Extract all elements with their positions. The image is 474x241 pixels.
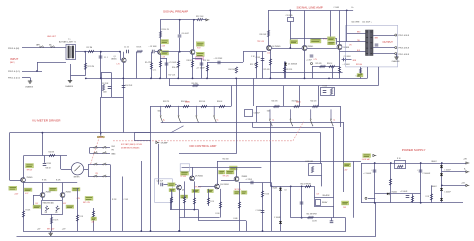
relay feed drop2: [314, 186, 316, 197]
svg-text:+C5 10UF: +C5 10UF: [169, 62, 177, 64]
sw mark b: [334, 120, 336, 122]
resistor R52: [170, 197, 172, 203]
svg-text:10 1W: 10 1W: [312, 221, 317, 223]
bl red r: [77, 198, 81, 200]
R45 label: [26, 210, 32, 212]
C6 label: [182, 33, 189, 35]
Q6 bias drop: [330, 10, 332, 36]
green label q9 t: [181, 172, 189, 176]
m22 label: [37, 228, 41, 230]
chassis label 2: [65, 85, 74, 88]
relay coil feed riser: [252, 122, 254, 127]
ps dot1: [374, 162, 376, 164]
pwr1 red: [345, 170, 349, 172]
svg-text:TP6 12V: TP6 12V: [223, 176, 230, 178]
ps left border: [361, 163, 363, 203]
svg-text:2N3565: 2N3565: [27, 177, 33, 179]
svg-text:SET 4.3V: SET 4.3V: [83, 202, 91, 204]
svg-text:SET 10V: SET 10V: [235, 189, 242, 191]
C10 extension: [123, 97, 125, 133]
svg-text:R5 475K: R5 475K: [145, 62, 152, 64]
relay red: [317, 194, 320, 196]
ps diode D14: [387, 193, 389, 196]
Q6 collector down: [339, 50, 341, 79]
MAIN red label: [185, 101, 190, 104]
vu red tp: [27, 170, 34, 172]
switch SW2d: [330, 109, 333, 126]
bus dot 5: [159, 78, 161, 80]
diode chain wire: [280, 186, 282, 231]
ps out b+: [466, 171, 469, 173]
trimmer C31: [288, 18, 294, 22]
ps b+ label: [464, 168, 466, 170]
q11 base wire: [221, 180, 234, 182]
resistor R58: [261, 191, 263, 197]
R32 wire: [360, 67, 362, 79]
svg-text:Q4 2N3565: Q4 2N3565: [272, 46, 281, 48]
C6 wire top: [179, 20, 181, 35]
svg-text:R29 470: R29 470: [316, 63, 322, 65]
resistor R53: [183, 197, 185, 203]
svg-text:C10 22UF: C10 22UF: [125, 85, 132, 87]
Q5-Q6 wire: [307, 48, 337, 50]
svg-text:R36 6K: R36 6K: [217, 101, 223, 103]
R56 label: [216, 213, 220, 215]
Q1 type label: [111, 59, 117, 61]
green label q11 r: [234, 191, 240, 194]
svg-text:MAIN: MAIN: [296, 101, 301, 104]
green label vu: [26, 164, 34, 168]
C4 label: [153, 70, 157, 72]
svg-text:600 OHM: 600 OHM: [352, 21, 360, 23]
supply terminal preamp: [206, 19, 209, 21]
VU meter: [71, 163, 83, 175]
resistor R33: [165, 105, 171, 107]
green label p1: [33, 205, 41, 208]
svg-text:R32 600: R32 600: [356, 64, 362, 66]
cap C13: [344, 58, 346, 62]
PB label: [112, 150, 115, 152]
q9 collector: [192, 167, 194, 176]
DR AMP terminal: [156, 141, 159, 143]
resistor R28: [283, 67, 285, 73]
red tp Q3a: [197, 48, 201, 50]
ps dot4: [441, 162, 443, 164]
rail dot a: [179, 19, 181, 21]
R28 wire: [284, 62, 286, 79]
resistor R16: [177, 61, 179, 67]
line amp top rail: [268, 10, 353, 12]
relay coil label: [323, 194, 331, 197]
SIGNAL LINE AMP title: [297, 5, 323, 9]
BRN label: [353, 60, 357, 62]
switch common line: [161, 122, 344, 124]
jack label a: [36, 44, 40, 47]
pin2 lo label: [8, 71, 20, 73]
svg-text:CHASSIS: CHASSIS: [25, 86, 34, 89]
q12 base drop: [33, 195, 35, 205]
dr red mid: [195, 186, 203, 188]
C3 label: [149, 46, 157, 48]
ground T1: [68, 81, 72, 83]
cgB row1: [88, 164, 110, 166]
R16 label: [172, 67, 179, 69]
svg-text:1N4002: 1N4002: [392, 191, 398, 193]
diode D2: [279, 188, 282, 190]
ps diode D13: [440, 198, 443, 200]
svg-text:C4 .1: C4 .1: [153, 70, 157, 72]
selector wiper diagonal: [171, 126, 184, 133]
R61 label2: [312, 221, 317, 223]
svg-text:R25 470: R25 470: [264, 69, 270, 71]
ps red: [362, 158, 371, 161]
relay coil drop: [333, 127, 335, 198]
svg-text:PIN 2 & (LO): PIN 2 & (LO): [8, 71, 20, 73]
R34 label: [181, 101, 188, 103]
svg-text:Q10 2N3565: Q10 2N3565: [220, 184, 229, 186]
svg-text:2N3565: 2N3565: [46, 192, 52, 194]
T2 out pin1: [373, 53, 395, 55]
D13 label: [444, 192, 450, 194]
ps dot6: [374, 202, 376, 204]
plus mark c22: [250, 182, 252, 184]
pot P2: [56, 206, 60, 211]
C19 label: [256, 57, 261, 59]
R21 label: [250, 64, 257, 66]
mid label a: [112, 199, 117, 201]
svg-text:1.2V: 1.2V: [117, 64, 120, 66]
R72 label: [426, 196, 430, 198]
C6 wire bot: [179, 38, 181, 52]
out red2: [349, 45, 352, 47]
Q11 label: [242, 176, 248, 178]
wire pin2 up: [37, 62, 39, 71]
Q13 label: [66, 192, 72, 194]
svg-text:B+: B+: [464, 168, 466, 170]
POWER SUPPLY title: [402, 148, 426, 152]
vu left border: [9, 133, 11, 180]
q12 coll: [42, 183, 44, 193]
Q2 emitter chain: [160, 54, 162, 78]
cap C2: [127, 50, 129, 54]
svg-text:PIN 3 & (HI): PIN 3 & (HI): [8, 48, 20, 50]
svg-text:R61 SE SPKR: R61 SE SPKR: [307, 214, 318, 216]
svg-text:SET -22V: SET -22V: [47, 228, 55, 230]
ps 28v label: [463, 159, 468, 161]
SIGNAL PREAMP title: [163, 9, 188, 13]
vu base wire: [10, 180, 21, 182]
T1 label: [59, 41, 76, 44]
cap C5: [165, 63, 169, 65]
sw mark a: [273, 119, 275, 122]
q9 red t: [180, 176, 187, 178]
mech link diag: [293, 122, 304, 141]
dr link dot1: [179, 230, 181, 232]
C31 label: [286, 15, 293, 17]
R13 wire: [160, 20, 162, 50]
REC label: [112, 146, 116, 148]
rail B riser: [375, 203, 377, 237]
mech note line2: [121, 146, 140, 149]
right chain drop: [340, 106, 342, 127]
switch SW1a: [160, 106, 163, 123]
svg-text:C9 22UF: C9 22UF: [102, 83, 108, 85]
Q1 base node: [119, 51, 121, 53]
dr link 3r: [246, 221, 248, 231]
resistor R45: [22, 211, 24, 217]
bus dot 1: [85, 78, 87, 80]
ps cap C40: [373, 170, 377, 172]
dropper resistor: [311, 166, 313, 172]
ps res wire: [390, 163, 392, 203]
OUTPUT label: [383, 41, 394, 44]
resistor R57: [238, 202, 240, 208]
cap C19: [261, 59, 265, 61]
dr link dot2: [193, 209, 195, 211]
cap C15: [375, 44, 379, 46]
svg-text:PIN 3 & BLK: PIN 3 & BLK: [399, 48, 410, 50]
C42 label: [400, 191, 407, 193]
lineamp mid wire: [270, 72, 342, 74]
bus2 corner up: [378, 67, 380, 86]
svg-text:C21 1UF: C21 1UF: [157, 181, 163, 183]
resistor R44: [49, 154, 55, 156]
svg-text:PB: PB: [96, 173, 98, 175]
vu range box: [135, 133, 151, 141]
green label p2: [66, 205, 74, 208]
vu feed dot: [100, 132, 102, 134]
svg-text:PIN 1 & (LO): PIN 1 & (LO): [8, 78, 20, 80]
svg-text:+C 22UF: +C 22UF: [246, 179, 252, 181]
drop 253: [253, 78, 255, 106]
cap C24: [330, 221, 334, 223]
C40 label: [363, 173, 371, 175]
R12 label: [196, 16, 204, 18]
set level red: [356, 64, 362, 66]
svg-text:2N3565: 2N3565: [111, 59, 117, 61]
mech link diag2: [91, 140, 99, 165]
svg-text:GRN: GRN: [375, 38, 378, 40]
vu driver wire: [24, 155, 67, 157]
C10 label: [125, 85, 132, 87]
transistor Q7: [21, 178, 26, 183]
Q1 collector: [123, 52, 125, 58]
resistor R15: [159, 61, 161, 67]
switch SW2a: [269, 109, 272, 126]
C5 link: [160, 58, 167, 60]
C1 top dot: [100, 51, 102, 53]
resistor R24: [235, 67, 237, 73]
vu feed wire: [100, 97, 102, 135]
switch SW2b: [290, 109, 293, 126]
C21 label: [157, 181, 163, 183]
svg-text:2N3565: 2N3565: [66, 192, 72, 194]
meter label: [74, 177, 80, 179]
R50 label: [223, 159, 230, 161]
bus dot 7: [192, 78, 194, 80]
vu mid drop: [42, 133, 44, 156]
svg-text:VU METER DRIVER: VU METER DRIVER: [32, 119, 61, 123]
resistor R5: [150, 63, 152, 69]
transistor Q8: [177, 185, 182, 190]
green label ps: [363, 154, 371, 158]
dr top rail: [182, 167, 262, 169]
output section box: [346, 25, 398, 67]
left attn chain: [151, 106, 232, 108]
spkr b feed: [353, 161, 355, 218]
Q12 label: [46, 192, 52, 194]
C5 wire: [166, 58, 168, 78]
pot1 label: [45, 212, 48, 214]
R60 label: [301, 183, 312, 185]
right sw red: [296, 101, 301, 104]
fb cap: [323, 91, 327, 93]
Q3 collector wire: [193, 20, 195, 50]
resistor R55: [207, 198, 209, 204]
wire T1 out: [75, 51, 120, 53]
svg-text:C 1000UF: C 1000UF: [423, 173, 431, 175]
q12 emitter stub: [42, 197, 44, 200]
svg-text:1N4002: 1N4002: [431, 161, 437, 163]
svg-text:12V: 12V: [317, 194, 320, 196]
R58 label: [265, 194, 270, 196]
right attn chain: [256, 106, 340, 108]
resistor R32: [359, 68, 361, 74]
resistor R61: [308, 216, 314, 218]
contact B4: [103, 175, 107, 177]
bus dot 12: [328, 78, 330, 80]
p2 red: [63, 203, 66, 205]
R16 wire: [178, 52, 180, 79]
R29R30 wire: [312, 66, 340, 68]
D1 label: [288, 63, 298, 66]
rail cap label: [334, 7, 340, 9]
ps bottom rail: [361, 202, 463, 204]
R20 label: [103, 92, 108, 94]
drop 283: [283, 86, 285, 106]
svg-text:2N3638: 2N3638: [343, 47, 349, 49]
spkr wire: [291, 217, 346, 219]
resistor R18: [191, 61, 193, 67]
Q7 collector: [23, 156, 25, 178]
cgA row1: [90, 147, 111, 149]
svg-text:+ C 100UF: + C 100UF: [363, 173, 371, 175]
green label q8 l: [168, 183, 175, 186]
fb label: [323, 85, 328, 87]
resistor R36: [219, 105, 225, 107]
transformer T2: [366, 30, 374, 57]
green label dr-r: [230, 166, 238, 170]
vu dot: [42, 132, 44, 134]
svg-text:S1B: S1B: [267, 111, 270, 113]
q13 coll: [62, 183, 64, 193]
preamp top rail: [160, 19, 197, 21]
sw label b: [267, 111, 270, 113]
Q6 emitter up: [339, 10, 341, 44]
bl r b: [56, 180, 61, 182]
q11 out stub: [239, 182, 240, 184]
svg-text:+C7 100UF: +C7 100UF: [196, 68, 205, 70]
svg-text:+ C3 10UF: + C3 10UF: [149, 46, 157, 48]
svg-text:Q8: Q8: [182, 190, 184, 192]
dropper foot: [321, 176, 323, 187]
R2 tap dot: [84, 51, 86, 53]
Q10 type: [220, 184, 229, 186]
D11 label: [444, 170, 450, 172]
svg-text:C 10UF: C 10UF: [334, 7, 340, 9]
diode D3: [279, 221, 282, 223]
R19 label: [203, 60, 209, 62]
cgA left: [89, 148, 91, 154]
svg-text:R 1K: R 1K: [211, 201, 214, 203]
relay drive wire: [290, 186, 292, 217]
R44 label: [49, 151, 56, 153]
svg-text:C 22UF: C 22UF: [46, 163, 52, 165]
svg-text:R 100: R 100: [216, 213, 220, 215]
wire pin1 drop: [30, 78, 32, 82]
bus dot 3: [122, 78, 124, 80]
coupling wire: [207, 62, 243, 64]
spkr branch dot: [301, 186, 303, 188]
svg-text:R1 1M: R1 1M: [87, 47, 93, 49]
B+ drop to xfmr: [346, 10, 348, 41]
cgB left: [88, 165, 90, 177]
dr boundary riser: [236, 78, 238, 153]
bl top wire: [24, 182, 77, 184]
cap C23: [261, 211, 265, 213]
Q4 base wire: [243, 51, 266, 53]
ps res3 wire: [431, 185, 433, 202]
C1 label: [104, 57, 108, 59]
mech note line1: [121, 143, 142, 146]
dr base wire: [164, 184, 177, 186]
T2 wire yel: [337, 41, 366, 43]
svg-text:24-28 VAC: 24-28 VAC: [362, 158, 371, 161]
mid drop 122: [122, 177, 124, 232]
t2 red marks: [375, 38, 378, 40]
Q6 label: [343, 47, 349, 49]
svg-text:R33 27K: R33 27K: [163, 101, 170, 103]
svg-text:TP8 2V: TP8 2V: [27, 170, 34, 172]
resistor R56: [219, 202, 221, 208]
svg-text:D4: D4: [285, 190, 287, 192]
C23 label: [256, 210, 262, 212]
transistor Q2: [158, 50, 163, 55]
relay cap box: [316, 200, 321, 206]
DR AMP label: [161, 142, 169, 145]
R36 label: [217, 101, 223, 103]
cgA row2: [90, 153, 111, 155]
q10 collector: [217, 161, 219, 184]
bus feedback riser: [169, 78, 171, 85]
fb wire top: [290, 38, 337, 40]
Q1 emitter: [123, 63, 125, 79]
spkr branch dot2: [301, 217, 303, 219]
out label1: [352, 21, 360, 23]
transformer T1: [66, 45, 76, 60]
DR CONTROL AMP title: [190, 144, 217, 148]
ps diode D11: [440, 173, 443, 175]
bootstrap dot: [179, 51, 181, 53]
svg-text:500: 500: [55, 212, 58, 214]
ps resistor R71: [411, 196, 413, 202]
capacitor C6: [178, 35, 182, 37]
fb resistor: [330, 88, 332, 94]
svg-text:C6 .0047: C6 .0047: [182, 33, 189, 35]
rail dot d: [346, 10, 348, 12]
q12 base feed: [33, 195, 40, 197]
R30 label: [327, 63, 333, 65]
